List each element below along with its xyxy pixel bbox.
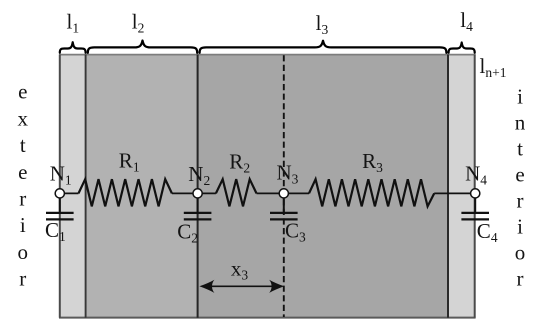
svg-text:i: i	[517, 215, 523, 239]
dimension arrow x3	[199, 280, 284, 293]
brace l1	[60, 42, 86, 53]
capacitor C4	[461, 213, 489, 220]
wall layer 1 (exterior render band)	[60, 55, 86, 318]
svg-text:x: x	[18, 106, 29, 130]
svg-text:i: i	[20, 213, 26, 237]
resistor R3	[309, 179, 434, 206]
capacitor C1	[46, 213, 74, 220]
node N4	[471, 189, 480, 198]
brace l4	[449, 43, 475, 53]
svg-text:e: e	[18, 80, 27, 104]
label exterior (vertical)	[18, 80, 29, 291]
capacitor C3	[270, 213, 298, 220]
layer boundary 3/4	[447, 55, 449, 318]
node N1	[55, 189, 64, 198]
wire N4 to C4	[474, 193, 476, 212]
wall left edge	[59, 55, 61, 318]
layer boundary 1/2	[85, 55, 87, 318]
svg-text:i: i	[517, 85, 523, 109]
wire N2 to C2	[197, 193, 199, 212]
wire N3 to C3	[283, 193, 285, 212]
label l2	[132, 10, 145, 36]
layer boundary 2/3 (node N2 line)	[197, 55, 199, 318]
svg-text:e: e	[515, 163, 524, 187]
svg-text:r: r	[19, 267, 26, 291]
svg-text:e: e	[18, 160, 27, 184]
svg-text:o: o	[18, 240, 29, 264]
label C2	[177, 220, 198, 246]
wall layer 4 (interior band)	[448, 55, 475, 318]
resistor R2	[216, 179, 257, 206]
capacitor C2	[184, 213, 212, 220]
wall top edge	[59, 54, 476, 56]
wire N3 to R3	[284, 192, 309, 194]
wire R1 to N2	[172, 192, 198, 194]
resistor R1	[79, 179, 172, 206]
wire N1 to C1	[59, 193, 61, 212]
brace l2	[88, 41, 197, 53]
node N2	[193, 189, 202, 198]
label C1	[45, 218, 66, 244]
label R2	[229, 150, 250, 176]
label N1	[50, 162, 72, 188]
label N3	[277, 161, 299, 187]
node N3	[279, 189, 288, 198]
dashed section line x3	[283, 55, 285, 317]
wall layer 2	[86, 55, 198, 318]
svg-text:n: n	[515, 111, 526, 135]
label R3	[362, 149, 383, 175]
label interior (vertical)	[515, 85, 526, 291]
label l n+1	[480, 54, 507, 80]
wire R2 to N3	[257, 192, 284, 194]
label N4	[465, 162, 487, 188]
label R1	[119, 149, 140, 175]
label N2	[188, 162, 210, 188]
label x3	[231, 257, 249, 283]
label l3	[316, 11, 329, 37]
wire N1 to R1	[60, 192, 79, 194]
svg-text:r: r	[517, 189, 524, 213]
wall bottom edge	[59, 317, 476, 319]
label C4	[477, 219, 498, 245]
wall right edge	[474, 55, 476, 318]
svg-text:o: o	[515, 241, 526, 265]
brace l3	[200, 41, 447, 53]
label l4	[460, 8, 473, 34]
label C3	[285, 219, 306, 245]
svg-text:t: t	[517, 137, 523, 161]
svg-text:r: r	[517, 267, 524, 291]
label l1	[67, 9, 80, 35]
svg-text:r: r	[19, 187, 26, 211]
wire R3 to N4	[434, 192, 475, 194]
wire N2 to R2	[198, 192, 216, 194]
svg-text:t: t	[20, 133, 26, 157]
wall layer 3	[198, 55, 449, 318]
